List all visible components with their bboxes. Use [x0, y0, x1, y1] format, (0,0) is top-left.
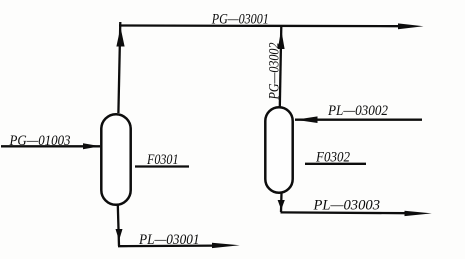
arrowhead up on left riser — [116, 27, 124, 46]
arrowhead right end of PL-03003 — [405, 211, 432, 216]
wire: bottom line PL-03003 — [281, 211, 409, 214]
wire: F0302 bottom drop — [280, 193, 283, 212]
svg-text:PL—03002: PL—03002 — [327, 103, 388, 119]
arrowhead up on right riser — [278, 30, 285, 50]
wire: right riser PG-03002 — [280, 26, 282, 107]
svg-text:PG—03002: PG—03002 — [267, 43, 283, 101]
svg-text:PG—01003: PG—01003 — [9, 133, 71, 149]
wire: top header line PG-03001 — [119, 24, 400, 27]
arrowhead down on drop — [116, 229, 123, 241]
wire: F0301 bottom drop — [118, 205, 119, 246]
arrowhead down on right drop — [278, 200, 285, 210]
arrowhead into F0301 left — [83, 143, 101, 149]
wire: inlet line PG-01003 — [1, 145, 100, 147]
wire: inlet line PL-03002 — [295, 119, 422, 121]
vessel F0302 — [265, 107, 292, 193]
svg-text:PL—03001: PL—03001 — [138, 232, 199, 248]
underline of F0301 — [135, 165, 189, 167]
arrowhead right end of PG-03001 — [398, 23, 424, 29]
svg-text:PG—03001: PG—03001 — [211, 12, 269, 28]
wire: left riser from F0301 top to header — [118, 22, 120, 113]
arrowhead right end of PL-03001 — [212, 243, 240, 248]
vessel F0301 — [101, 114, 130, 205]
arrowhead into F0302 right — [296, 116, 318, 123]
svg-text:PL—03003: PL—03003 — [312, 198, 380, 214]
wire: bottom line PL-03001 — [118, 244, 215, 247]
underline of F0302 — [305, 163, 366, 165]
